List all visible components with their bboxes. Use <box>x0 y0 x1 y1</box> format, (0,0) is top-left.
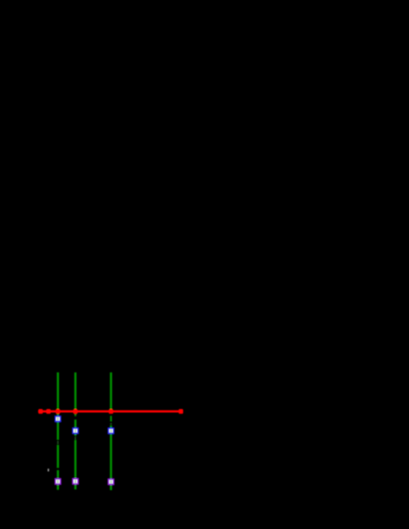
switch D3 (purple square, feeder 3) <box>108 479 113 484</box>
label tick (small gray mark) <box>48 469 50 472</box>
wire feeder 3 faint dash <box>110 423 112 425</box>
wire feeder 3 dash below bus <box>110 416 112 422</box>
wire feeder 2 faint dash <box>74 437 76 440</box>
junction: bus / feeder 3 <box>109 409 114 414</box>
node: bus left end <box>38 409 43 414</box>
switch D1 (purple square, feeder 1) <box>55 479 60 484</box>
wire feeder 2 lower segment <box>74 440 76 479</box>
wire feeder 2 dash below bus <box>74 414 76 416</box>
wire feeder 1 lower segment <box>57 470 59 478</box>
wire feeder 2 bottom stub <box>74 481 76 489</box>
wire feeder 1 faint dash <box>57 441 59 444</box>
busbar (red horizontal bus) <box>38 410 183 412</box>
breaker S2 (blue square, feeder 2) <box>73 428 78 433</box>
junction: bus / feeder 2 <box>73 409 78 414</box>
wire feeder 1 bottom stub <box>57 481 59 490</box>
wire feeder 3 upper segment <box>110 372 112 411</box>
node: bus tap 2 <box>46 409 51 414</box>
wire feeder 1 upper segment <box>57 372 59 440</box>
node: bus right end <box>179 409 184 414</box>
wire feeder 1 middle segment <box>57 445 59 468</box>
wire feeder 3 bottom stub <box>110 481 112 490</box>
breaker S3 (blue square, feeder 3) <box>108 428 113 433</box>
wire feeder 3 lower segment <box>110 425 112 479</box>
junction: bus / feeder 1 <box>56 409 61 414</box>
wire feeder 2 upper segment <box>74 372 76 411</box>
wire feeder 2 breaker segment <box>74 420 76 436</box>
switch D2 (purple square, feeder 2) <box>73 479 78 484</box>
breaker S1 (blue square, feeder 1) <box>55 416 60 421</box>
